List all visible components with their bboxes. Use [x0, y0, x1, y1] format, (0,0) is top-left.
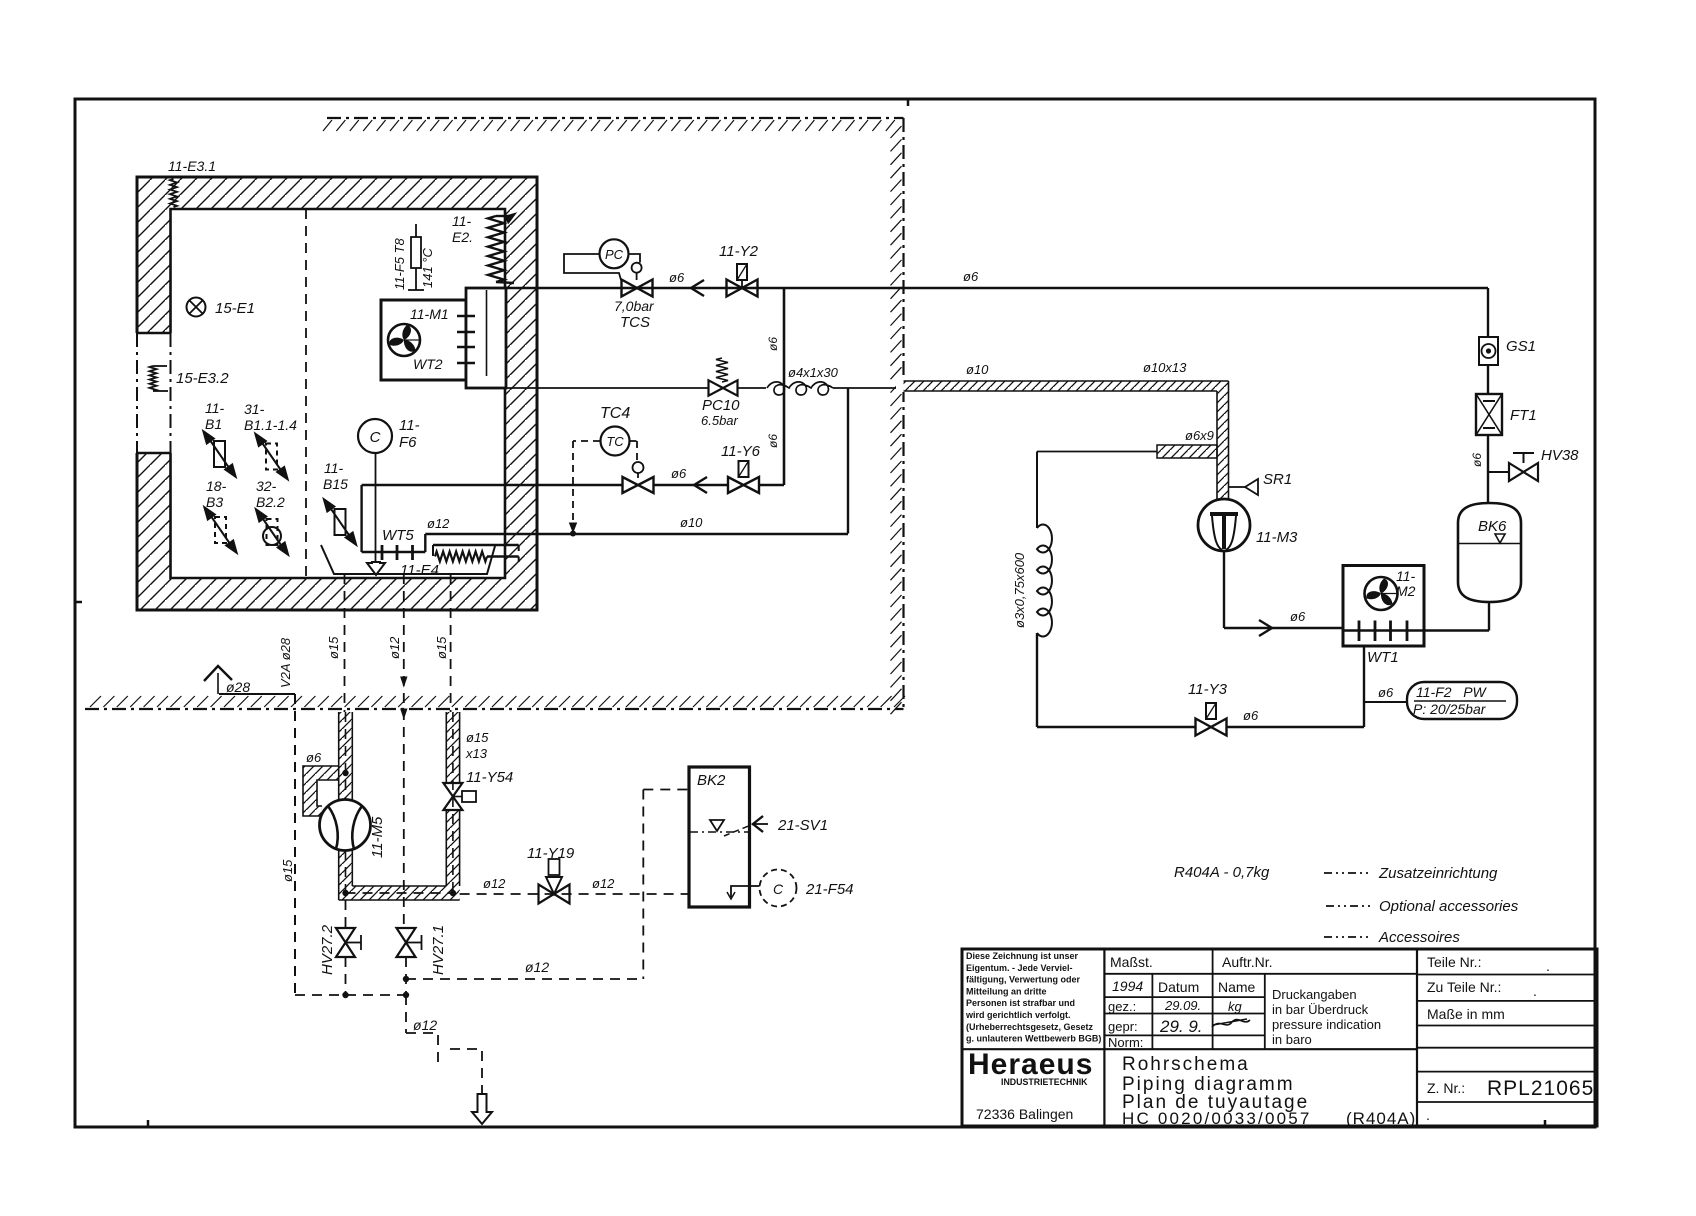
machine room boundary right wall: [902, 118, 904, 709]
svg-text:WT5: WT5: [382, 527, 414, 544]
svg-text:ø10: ø10: [966, 362, 989, 377]
svg-text:11-F5 T8: 11-F5 T8: [392, 237, 407, 290]
condenser WT1 with fan 11-M2: [1343, 566, 1424, 647]
evaporator WT2 with fan 11-M1: [381, 300, 466, 380]
svg-text:11-M5: 11-M5: [369, 816, 386, 858]
sensor 21-F54: [760, 870, 797, 907]
svg-text:PC10: PC10: [702, 397, 740, 414]
svg-text:141 °C: 141 °C: [420, 247, 435, 288]
sensor 31-B1.1-1.4: [266, 444, 277, 470]
svg-text:ø10: ø10: [680, 515, 703, 530]
svg-text:.: .: [1546, 958, 1550, 974]
sensor 32-B2.2: [263, 527, 281, 545]
svg-text:Zu Teile Nr.:: Zu Teile Nr.:: [1427, 979, 1501, 995]
svg-text:Teile Nr.:: Teile Nr.:: [1427, 954, 1481, 970]
insulated pipe phi15 to pump: [339, 712, 353, 802]
svg-text:11-E4: 11-E4: [400, 562, 439, 579]
hand valve HV27.1: [397, 928, 416, 943]
svg-text:29. 9.: 29. 9.: [1159, 1017, 1203, 1036]
heater 11-E2: [488, 216, 504, 282]
svg-text:ø6: ø6: [766, 434, 780, 448]
svg-text:ø4x1x30: ø4x1x30: [788, 365, 839, 380]
insulated pipe bottom run: [339, 886, 460, 900]
svg-text:11-: 11-: [324, 460, 344, 476]
capillary coil phi4x1x30: [738, 387, 767, 389]
svg-text:ø6: ø6: [1470, 453, 1484, 467]
svg-text:gepr:: gepr:: [1108, 1019, 1138, 1034]
filter dryer FT1: [1476, 394, 1502, 435]
drain manifold dashed lines: [403, 976, 409, 982]
vent stack phi28: [204, 666, 232, 681]
svg-text:B1: B1: [205, 416, 222, 432]
solenoid valve 11-Y2: [727, 280, 743, 297]
svg-text:ø12: ø12: [592, 876, 615, 891]
svg-text:B1.1-1.4: B1.1-1.4: [244, 417, 297, 433]
tank BK2: [689, 767, 750, 907]
svg-text:Eigentum. - Jede Verviel-: Eigentum. - Jede Verviel-: [966, 963, 1073, 973]
svg-text:11-: 11-: [1396, 568, 1416, 584]
relief valve PC10 6.5bar: [709, 380, 724, 395]
pipe drop to suction line: [847, 388, 849, 534]
drain outlet phi12: [405, 995, 407, 1033]
svg-text:V2A ø28: V2A ø28: [278, 637, 293, 688]
svg-text:(Urheberrechtsgesetz, Gesetz: (Urheberrechtsgesetz, Gesetz: [966, 1022, 1094, 1032]
svg-text:ø6: ø6: [963, 269, 979, 284]
svg-text:Accessoires: Accessoires: [1378, 929, 1460, 946]
svg-text:11-Y6: 11-Y6: [721, 443, 761, 460]
svg-text:ø28: ø28: [226, 679, 250, 695]
svg-text:ø6x9: ø6x9: [1185, 428, 1214, 443]
cold chamber walls: [137, 177, 537, 209]
svg-text:ø15: ø15: [434, 636, 449, 659]
svg-text:29.09.: 29.09.: [1164, 998, 1201, 1013]
svg-text:.: .: [1533, 983, 1537, 999]
svg-text:Maße in mm: Maße in mm: [1427, 1006, 1505, 1022]
hand valve HV27.2: [345, 900, 347, 928]
svg-text:11-Y2: 11-Y2: [719, 243, 759, 260]
svg-text:x13: x13: [465, 746, 488, 761]
svg-text:Rohrschema: Rohrschema: [1122, 1054, 1250, 1075]
insulated pipe phi15x13 with 11-Y54: [446, 712, 459, 783]
svg-text:6.5bar: 6.5bar: [701, 413, 739, 428]
heater 15-E3.2: [150, 366, 157, 391]
machine room boundary top: [327, 117, 904, 119]
svg-text:PC: PC: [605, 247, 624, 262]
WT1 outlet: [1363, 646, 1365, 727]
svg-text:11-Y3: 11-Y3: [1188, 681, 1228, 698]
svg-text:ø6: ø6: [1243, 708, 1259, 723]
svg-text:11-M1: 11-M1: [410, 306, 449, 322]
pipe phi12/phi10 suction from WT5: [425, 533, 848, 535]
svg-text:HV38: HV38: [1541, 447, 1579, 464]
thermostat 11-F6: [358, 419, 392, 453]
svg-text:C: C: [773, 881, 784, 897]
svg-text:Diese Zeichnung ist unser: Diese Zeichnung ist unser: [966, 951, 1079, 961]
title block: [962, 949, 1597, 1126]
svg-text:.: .: [1426, 1107, 1430, 1123]
svg-text:pressure indication: pressure indication: [1272, 1017, 1381, 1032]
svg-text:11-: 11-: [205, 400, 225, 416]
svg-text:E2.: E2.: [452, 229, 473, 245]
receiver BK6: [1458, 503, 1521, 602]
flow arrow: [691, 280, 704, 296]
valve 11-Y54: [443, 783, 462, 797]
svg-text:B2.2: B2.2: [256, 494, 285, 510]
svg-text:ø3x0,75x600: ø3x0,75x600: [1012, 552, 1027, 628]
legend optional accessories: [1324, 872, 1370, 874]
svg-text:GS1: GS1: [1506, 338, 1536, 355]
pressure controller PC: [600, 239, 629, 268]
svg-text:FT1: FT1: [1510, 407, 1537, 424]
svg-text:kg: kg: [1228, 999, 1243, 1014]
lamp 15-E1: [187, 298, 206, 317]
svg-text:fältigung, Verwertung oder: fältigung, Verwertung oder: [966, 975, 1081, 985]
svg-text:ø6: ø6: [669, 270, 685, 285]
svg-text:ø12: ø12: [483, 876, 506, 891]
svg-text:C: C: [370, 429, 381, 446]
svg-text:18-: 18-: [206, 478, 227, 494]
condensate drain lines through floor: [344, 574, 346, 712]
svg-text:1994: 1994: [1112, 978, 1143, 994]
pipe phi6 hot-gas line: [506, 287, 1488, 290]
pipe V2A phi28 (dashed): [294, 694, 296, 995]
svg-text:in baro: in baro: [1272, 1032, 1312, 1047]
heater 11-E4: [433, 544, 519, 547]
bypass phi6: [303, 766, 339, 816]
svg-text:15-E3.2: 15-E3.2: [176, 370, 229, 387]
pipe liquid line from WT2: [506, 387, 709, 389]
svg-text:gez.:: gez.:: [1108, 999, 1136, 1014]
room divider (dashed): [305, 209, 307, 578]
svg-text:31-: 31-: [244, 401, 265, 417]
svg-text:M2: M2: [1396, 583, 1416, 599]
insulated stub phi6x9: [1157, 445, 1217, 458]
svg-text:ø12: ø12: [525, 959, 549, 975]
svg-text:72336 Balingen: 72336 Balingen: [976, 1106, 1073, 1122]
svg-text:ø12: ø12: [387, 636, 402, 659]
svg-text:BK2: BK2: [697, 772, 726, 789]
svg-text:SR1: SR1: [1263, 471, 1292, 488]
svg-text:ø12: ø12: [427, 516, 450, 531]
svg-text:ø15: ø15: [280, 859, 295, 882]
svg-text:g. unlauteren Wettbewerb BGB): g. unlauteren Wettbewerb BGB): [966, 1034, 1101, 1044]
svg-text:11-F2 PW: 11-F2 PW: [1416, 684, 1488, 700]
heater cable 3x0.75x600 coil: [1036, 452, 1038, 529]
insulated pipe phi10x13: [896, 380, 916, 392]
svg-text:7,0bar: 7,0bar: [614, 298, 655, 314]
temperature controller TC4: [601, 427, 630, 456]
heat exchanger WT5: [360, 485, 362, 552]
svg-text:Maßst.: Maßst.: [1110, 954, 1153, 970]
svg-text:15-E1: 15-E1: [215, 300, 255, 317]
svg-text:P: 20/25bar: P: 20/25bar: [1413, 701, 1487, 717]
svg-text:11-Y54: 11-Y54: [466, 769, 513, 786]
heater 11-E3.1: [170, 179, 177, 207]
svg-text:ø12: ø12: [413, 1017, 437, 1033]
svg-text:BK6: BK6: [1478, 518, 1507, 535]
svg-text:B15: B15: [323, 476, 348, 492]
svg-text:B3: B3: [206, 494, 223, 510]
sensor 11-B1: [214, 441, 225, 467]
svg-text:Personen ist strafbar und: Personen ist strafbar und: [966, 998, 1075, 1008]
svg-text:(R404A): (R404A): [1346, 1109, 1416, 1128]
svg-text:ø15: ø15: [466, 730, 489, 745]
level switch 21-SV1: [753, 816, 763, 832]
condensate tray: [321, 545, 495, 574]
temperature control valve (TC4): [623, 477, 639, 493]
svg-text:11-: 11-: [399, 417, 420, 434]
svg-text:F6: F6: [399, 434, 417, 451]
svg-text:ø15: ø15: [326, 636, 341, 659]
svg-text:in bar Überdruck: in bar Überdruck: [1272, 1002, 1369, 1017]
svg-text:Auftr.Nr.: Auftr.Nr.: [1222, 954, 1273, 970]
svg-text:R404A - 0,7kg: R404A - 0,7kg: [1174, 864, 1270, 881]
svg-text:ø6: ø6: [1290, 609, 1306, 624]
svg-text:HV27.1: HV27.1: [430, 925, 447, 975]
pipe phi6 to condenser unit: [1487, 288, 1489, 337]
svg-text:11-Y19: 11-Y19: [527, 845, 575, 862]
svg-text:INDUSTRIETECHNIK: INDUSTRIETECHNIK: [1001, 1077, 1088, 1087]
control valve TCS 7.0bar: [622, 280, 638, 297]
svg-text:11-M3: 11-M3: [1256, 529, 1298, 546]
svg-text:21-F54: 21-F54: [805, 881, 854, 898]
svg-text:ø6: ø6: [306, 750, 322, 765]
svg-text:Mitteilung an dritte: Mitteilung an dritte: [966, 986, 1047, 996]
drawing frame: [75, 99, 1595, 1127]
svg-text:RPL21065: RPL21065: [1487, 1077, 1594, 1100]
svg-text:21-SV1: 21-SV1: [777, 817, 828, 834]
pressure switch 11-F2 PW: [1364, 701, 1407, 703]
svg-text:TC: TC: [606, 434, 624, 449]
svg-text:ø6: ø6: [1378, 685, 1394, 700]
svg-text:HC 0020/0033/0057: HC 0020/0033/0057: [1122, 1109, 1312, 1128]
svg-text:Zusatzeinrichtung: Zusatzeinrichtung: [1378, 865, 1498, 882]
svg-text:TC4: TC4: [600, 405, 630, 422]
pipe phi12 defrost return line: [362, 484, 623, 486]
svg-text:WT1: WT1: [1367, 649, 1399, 666]
pump 11-M5: [320, 800, 371, 851]
svg-text:Norm:: Norm:: [1108, 1035, 1143, 1050]
thermal fuse 11-F5 T8 141 C: [415, 224, 417, 237]
sensor 11-B15: [335, 509, 346, 535]
pipe phi6 riser to defrost line: [783, 288, 786, 485]
svg-text:32-: 32-: [256, 478, 277, 494]
svg-text:ø6: ø6: [766, 337, 780, 351]
safety vent SR1: [1229, 486, 1245, 488]
svg-text:Z. Nr.:: Z. Nr.:: [1427, 1080, 1465, 1096]
svg-text:wird gerichtlich verfolgt.: wird gerichtlich verfolgt.: [965, 1010, 1071, 1020]
sight glass GS1: [1479, 337, 1498, 365]
svg-text:ø6: ø6: [671, 466, 687, 481]
svg-text:Optional accessories: Optional accessories: [1379, 898, 1519, 915]
svg-text:Datum: Datum: [1158, 979, 1199, 995]
pump 11-M3: [1198, 499, 1250, 551]
solenoid valve 11-Y3: [1037, 726, 1196, 728]
svg-text:Name: Name: [1218, 979, 1256, 995]
hand valve HV38: [1488, 471, 1509, 473]
svg-text:HV27.2: HV27.2: [319, 924, 336, 975]
svg-text:11-: 11-: [452, 213, 472, 229]
svg-text:11-E3.1: 11-E3.1: [168, 158, 216, 174]
svg-text:TCS: TCS: [620, 314, 650, 331]
solenoid valve 11-Y19: [460, 893, 689, 895]
svg-text:ø10x13: ø10x13: [1143, 360, 1187, 375]
solenoid valve 11-Y6: [728, 477, 744, 493]
sensor 18-B3: [215, 517, 226, 543]
svg-text:WT2: WT2: [413, 356, 443, 372]
machine room floor: [85, 708, 904, 710]
svg-text:Druckangaben: Druckangaben: [1272, 987, 1357, 1002]
